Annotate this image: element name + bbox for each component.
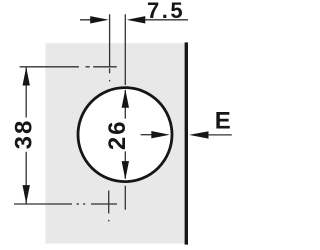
arrow 7.5 right-pointing xyxy=(90,16,109,23)
center line vertical left (drilling axis) xyxy=(108,14,111,221)
svg-text:26: 26 xyxy=(104,119,131,150)
door panel (grey) xyxy=(46,43,185,243)
arrow 38 down xyxy=(23,185,30,204)
svg-text:38: 38 xyxy=(11,119,38,150)
arrow 7.5 left-pointing xyxy=(127,16,146,23)
door edge bar xyxy=(185,42,188,244)
cup hole circle d26 xyxy=(78,88,172,182)
dimension line 7.5 right tail xyxy=(145,19,188,21)
arrow E (points left at door edge) xyxy=(189,131,209,138)
arrow 26 up xyxy=(122,89,129,108)
arrow cup edge (points right at circle edge) xyxy=(141,134,152,136)
svg-text:E: E xyxy=(215,107,231,134)
center line vertical right (cup axis) xyxy=(124,14,126,210)
center line horizontal top (38 reference) xyxy=(20,66,117,68)
dimension line 26 (inside cup) xyxy=(124,90,126,179)
arrow 38 up xyxy=(23,67,30,86)
center line horizontal bottom (38 reference) xyxy=(14,203,117,205)
arrow 26 down xyxy=(122,161,129,180)
svg-text:7.5: 7.5 xyxy=(147,0,185,23)
dimension line 7.5 left tail xyxy=(80,19,101,21)
dimension line 38 xyxy=(25,67,27,204)
